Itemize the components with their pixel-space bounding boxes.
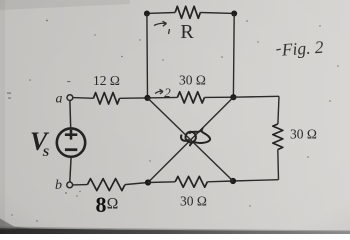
terminal a (open circle) xyxy=(67,95,73,101)
resistor R xyxy=(175,6,200,18)
svg-text:a: a xyxy=(56,92,63,107)
node C (middle-left junction) xyxy=(144,95,150,101)
label Vs xyxy=(30,127,50,159)
label b xyxy=(55,178,62,193)
node E (middle-right junction) xyxy=(230,94,236,100)
svg-text:30 Ω: 30 Ω xyxy=(290,127,317,142)
label R xyxy=(180,21,194,43)
left edge shading xyxy=(0,0,5,234)
value label 30 ohm bottom xyxy=(180,194,207,209)
wire: resistor 8ohm to node G xyxy=(125,183,148,185)
value label 30 ohm middle xyxy=(179,73,206,88)
wire: terminal b to resistor 8ohm xyxy=(73,184,88,186)
svg-text:12 Ω: 12 Ω xyxy=(93,73,120,88)
wire: top horizontal right segment (resistor R to node N2) xyxy=(200,12,234,15)
crossing knot scribble xyxy=(181,130,210,146)
dark bottom band (photo edge) xyxy=(0,226,350,234)
resistor 30ohm middle xyxy=(177,92,204,103)
svg-text:Ω: Ω xyxy=(107,196,119,213)
node N2 (top-right junction) xyxy=(231,11,237,17)
terminal b (open circle) xyxy=(67,182,73,188)
svg-text:30 Ω: 30 Ω xyxy=(180,194,207,209)
voltage source Vs xyxy=(57,128,85,156)
wire: diagonal node E to node G xyxy=(148,97,233,182)
svg-text:b: b xyxy=(55,178,62,193)
top-left corner shading xyxy=(0,0,130,10)
wire: terminal a to Vs top xyxy=(69,101,72,129)
wire: node E to top-right corner xyxy=(233,95,279,98)
svg-text:S: S xyxy=(43,145,50,159)
wire: left vertical (node N1 down to node C) xyxy=(146,14,149,98)
resistor 8ohm xyxy=(87,179,125,191)
dark bottom-left edge wedge xyxy=(0,219,32,230)
label a xyxy=(56,92,63,107)
value label 30 ohm right xyxy=(290,127,317,142)
resistor 30ohm bottom xyxy=(175,176,207,187)
svg-text:R: R xyxy=(180,21,194,43)
wire: resistor 30ohm bottom to node F xyxy=(207,180,233,183)
wire: node C to resistor 30ohm middle xyxy=(148,96,178,99)
wire: right branch vertical lower xyxy=(277,150,280,180)
svg-text:30 Ω: 30 Ω xyxy=(179,73,206,88)
node N1 (top-left junction) xyxy=(144,11,150,17)
node F (bottom-right junction) xyxy=(230,178,236,184)
value label 8 ohm xyxy=(96,192,119,217)
svg-text:8: 8 xyxy=(96,192,107,217)
paper specks (noise) xyxy=(7,20,339,222)
wire: Vs bottom to terminal b xyxy=(70,157,71,182)
figure caption Fig. 2 xyxy=(276,37,325,60)
wire: right vertical (node N2 down to node E) xyxy=(232,14,235,98)
wire: terminal a to resistor 12ohm xyxy=(73,97,94,100)
value label 12 ohm xyxy=(93,73,120,88)
wire: node G to resistor 30ohm bottom xyxy=(148,181,175,184)
wire: bottom-right corner to node F xyxy=(233,180,279,181)
current arrow i2 xyxy=(155,85,171,100)
svg-text:Fig. 2: Fig. 2 xyxy=(280,37,324,60)
resistor 12ohm xyxy=(93,93,119,105)
wire: diagonal node C to node F xyxy=(148,98,234,181)
resistor 30ohm right xyxy=(273,124,283,150)
wire: right branch vertical upper xyxy=(278,96,279,124)
node G (bottom-middle-left junction) xyxy=(145,179,151,185)
wire: resistor 12ohm to node C xyxy=(120,97,148,99)
wire: resistor 30ohm middle to node E xyxy=(205,96,234,98)
current arrow i1 xyxy=(154,21,170,34)
wire: top horizontal left segment (node N1 to resistor R) xyxy=(147,12,175,15)
